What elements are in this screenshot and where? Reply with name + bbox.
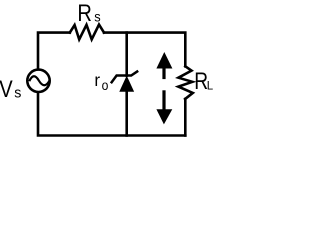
double arrow: up arrow shaft: [162, 66, 165, 79]
svg-text:s: s: [94, 9, 101, 24]
wire bottom: [38, 93, 185, 135]
label ro: [94, 70, 108, 93]
svg-text:V: V: [0, 75, 13, 102]
label VS: [0, 75, 21, 102]
resistor R_s zigzag: [70, 25, 104, 40]
wire right-bottom segment: [184, 99, 187, 136]
wire middle branch top: [125, 33, 128, 76]
up arrow head: [156, 52, 172, 69]
wire top-right segment: [104, 33, 185, 67]
AC source sine wave: [29, 76, 49, 85]
down arrow shaft: [162, 90, 165, 110]
svg-text:R: R: [77, 0, 92, 26]
wire middle branch bottom: [125, 91, 128, 136]
label Rs: [77, 0, 101, 26]
zener diode cathode bar with bent tails: [111, 71, 138, 83]
zener diode triangle (anode, apex up): [120, 77, 134, 92]
svg-text:r: r: [94, 70, 100, 91]
AC source V_S circle: [27, 70, 49, 92]
svg-text:o: o: [102, 77, 109, 93]
svg-text:L: L: [207, 80, 214, 92]
down arrow head: [156, 109, 172, 124]
label RL: [194, 67, 214, 95]
wire top-left segment: [38, 33, 70, 69]
wire: outer loop top/left/right/bottom: [38, 25, 193, 136]
resistor R_L zigzag: [178, 66, 193, 99]
svg-text:s: s: [14, 85, 21, 101]
